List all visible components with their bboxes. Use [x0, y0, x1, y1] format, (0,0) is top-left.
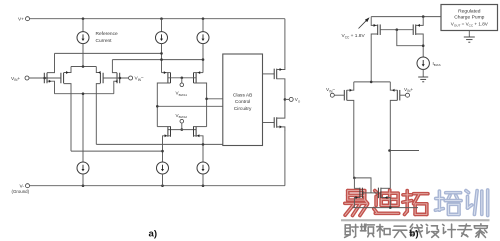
svg-text:(Ground): (Ground): [12, 189, 30, 194]
node output: [284, 98, 287, 101]
current source IBIAS: [417, 57, 441, 77]
transistor Q3: [96, 67, 103, 145]
label a): [149, 229, 158, 240]
current source I1 (reference): [77, 19, 118, 67]
current source I3: [197, 19, 209, 73]
node fold left: [156, 105, 159, 108]
wire VBIAS2 gates: [168, 129, 196, 131]
svg-text:Current: Current: [96, 38, 113, 44]
node vrail-cs2b: [161, 184, 164, 187]
svg-text:Circuitry: Circuitry: [234, 106, 252, 112]
transistor Q2: [61, 67, 71, 152]
current sink I4: [77, 94, 89, 186]
node rail-cs2: [160, 17, 163, 20]
wire B bottom rail: [352, 207, 418, 209]
transistor Q9: [274, 67, 285, 99]
terminal V+: [18, 16, 30, 22]
wire VIN- gates: [103, 77, 129, 79]
wire VBIAS1 gates: [168, 77, 196, 79]
wire gate N out: [263, 122, 275, 124]
wire lower left stub: [71, 150, 163, 152]
wire VIN+ gates: [29, 77, 60, 79]
node vrail-cs1b: [82, 184, 85, 187]
node tail top: [82, 65, 85, 68]
transistor Q10: [274, 99, 285, 130]
svg-text:Class AB: Class AB: [233, 93, 252, 99]
svg-text:Regulated: Regulated: [458, 9, 481, 15]
wire B top rail: [371, 16, 441, 18]
label b): [410, 229, 419, 240]
wire fold left to box: [157, 105, 223, 107]
wire VIN+ gate b: [400, 94, 406, 96]
wire pair source rail top: [71, 66, 96, 68]
watermark logo text: [341, 190, 490, 237]
node B tail: [370, 81, 373, 84]
svg-text:Charge Pump: Charge Pump: [454, 15, 484, 21]
node VIN- gate: [119, 77, 122, 80]
terminal VO: [289, 97, 301, 103]
transistor Q6: [194, 71, 207, 126]
transistor Q1: [44, 53, 54, 93]
terminal VIN- (b): [326, 87, 335, 97]
wire lower bus: [96, 143, 223, 145]
node B bottom: [389, 206, 392, 209]
wire fold A: [55, 52, 162, 54]
transistor Q13: [344, 82, 354, 178]
node lower left: [161, 150, 164, 153]
node VBIAS2: [181, 123, 184, 131]
ground charge pump: [464, 31, 475, 43]
terminal VBIAS1: [176, 83, 188, 97]
block Regulated Charge Pump: [441, 5, 498, 31]
wire VIN- gate b: [334, 94, 344, 96]
node B mirror gate: [396, 28, 399, 31]
svg-text:Control: Control: [235, 99, 250, 105]
node rail-cs3: [202, 17, 205, 20]
ground IBIAS: [418, 77, 428, 82]
node B out: [388, 149, 391, 152]
wire gate P out: [263, 73, 275, 75]
wire fold right to box: [207, 98, 223, 100]
arrow VCC pointer: [359, 17, 370, 28]
label VCC+1.8V: [342, 33, 366, 39]
node B diode: [422, 44, 425, 47]
terminal V- (Ground): [12, 183, 30, 194]
transistor Q5: [157, 71, 170, 126]
wire B mirror gates: [380, 29, 413, 31]
transistor Q7: [157, 126, 170, 151]
transistor Q14: [390, 82, 400, 188]
transistor Q4: [112, 60, 119, 94]
transistor Q12: [413, 17, 423, 57]
transistor Q16: [378, 188, 390, 208]
wire V+ rail: [30, 19, 285, 68]
node lower bus: [202, 143, 205, 146]
svg-text:a): a): [149, 229, 158, 240]
wire output: [285, 98, 289, 100]
svg-text:b): b): [410, 229, 419, 240]
transistor Q8: [194, 126, 207, 144]
node VIN+ gate: [43, 77, 46, 80]
terminal VBIAS2: [176, 113, 188, 123]
node B mirror left: [353, 177, 356, 180]
node tail bottom: [82, 92, 85, 95]
node fold B mid: [160, 58, 163, 61]
node vrail-cs3b: [202, 184, 205, 187]
node B rail: [422, 15, 425, 18]
wire B gate tie: [354, 178, 378, 193]
node fold A: [160, 52, 163, 55]
terminal VIN+ (a): [11, 76, 29, 82]
node fold B end: [202, 58, 205, 61]
transistor Q15: [354, 178, 362, 208]
svg-text:Reference: Reference: [96, 31, 118, 37]
node VBIAS1: [181, 77, 184, 84]
wire B out stub: [390, 150, 419, 152]
terminal VIN+ (b): [404, 87, 413, 97]
wire B diode tie: [397, 30, 423, 46]
wire fold B: [112, 59, 203, 61]
current sink I5: [157, 151, 169, 186]
terminal VIN- (a): [129, 76, 144, 82]
wire B tail: [354, 81, 391, 83]
wire V- rail: [30, 130, 285, 186]
node fold right: [205, 98, 208, 101]
node rail-cs1: [82, 17, 85, 20]
block Class AB Control Circuitry: [223, 54, 263, 146]
wire pair source rail bottom: [55, 93, 114, 95]
svg-text:V+: V+: [18, 16, 24, 22]
transistor Q11: [371, 17, 380, 82]
current source I2: [156, 19, 168, 73]
current sink I6: [197, 144, 209, 185]
